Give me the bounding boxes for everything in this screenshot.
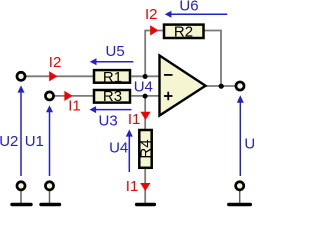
svg-text:R3: R3 — [103, 88, 122, 105]
svg-text:R2: R2 — [174, 23, 193, 40]
svg-text:U: U — [244, 136, 254, 153]
svg-text:U6: U6 — [179, 0, 198, 15]
svg-text:I2: I2 — [49, 54, 62, 71]
svg-text:I2: I2 — [145, 6, 158, 23]
svg-text:I1: I1 — [126, 178, 139, 195]
svg-text:U4: U4 — [109, 139, 128, 156]
svg-text:U2: U2 — [0, 133, 18, 150]
svg-text:I1: I1 — [128, 111, 141, 128]
svg-text:U4: U4 — [134, 78, 153, 95]
svg-text:I1: I1 — [68, 98, 81, 115]
svg-text:U5: U5 — [106, 43, 125, 60]
svg-text:U3: U3 — [99, 112, 118, 129]
svg-text:U1: U1 — [25, 133, 44, 150]
svg-text:R1: R1 — [103, 69, 122, 86]
svg-text:R4: R4 — [138, 139, 155, 158]
